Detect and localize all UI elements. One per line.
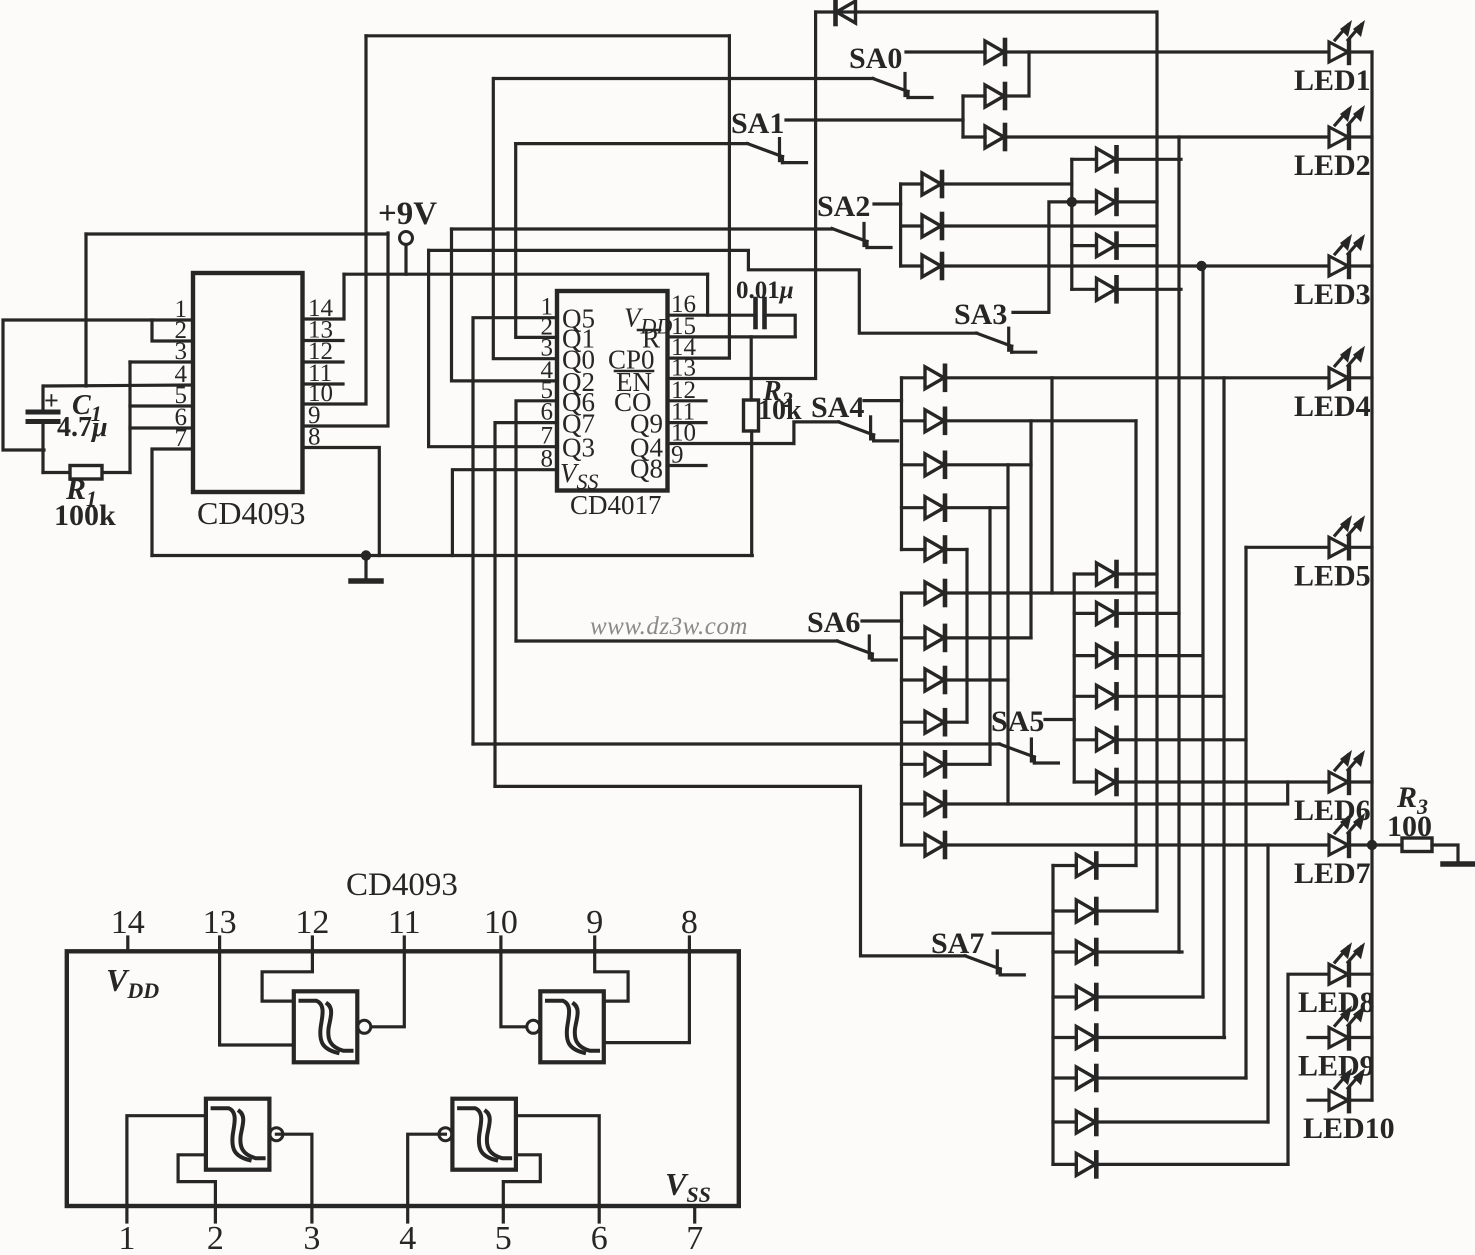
wire LED5 cathode link	[1351, 546, 1372, 549]
switch SA0 blade	[873, 74, 932, 98]
wire U1A in2 (pin13)	[220, 951, 294, 1045]
wire SA7 row1 out	[1096, 864, 1136, 867]
wire U1 pin7 to ground rail	[152, 449, 193, 556]
capacitor C1	[28, 386, 58, 473]
pin 14 U1	[308, 295, 334, 322]
wire matrix vertical A	[1155, 12, 1158, 911]
svg-text:2: 2	[207, 1220, 224, 1250]
value 0.01u	[736, 277, 794, 304]
wire SA3 wire	[1013, 202, 1072, 313]
wire D3 out to LED1 line	[1005, 52, 1029, 96]
value C1 4.7u	[57, 412, 108, 443]
gate U1B	[527, 991, 604, 1062]
switch SA3 blade	[977, 328, 1036, 352]
wire SA6 row4 out	[945, 721, 967, 724]
wire SA3 row4 input	[1072, 288, 1096, 291]
wire ground rail	[152, 554, 752, 557]
wire U1 pin5 stub	[130, 404, 193, 407]
label LED1	[1294, 64, 1371, 97]
wire LED2 cathode link	[1351, 135, 1372, 138]
pin 6 U2	[541, 399, 554, 426]
pin 11 block	[388, 904, 421, 941]
svg-text:4.7μ: 4.7μ	[57, 412, 108, 443]
wire SA4 row4 out	[945, 506, 1008, 509]
IC U1 functional diagram body	[67, 951, 739, 1206]
wire SA2 wire	[874, 202, 901, 205]
diode SA6-5	[925, 752, 945, 776]
diode SA4-4	[925, 496, 945, 520]
wire U2 pin12 stub	[668, 399, 707, 402]
wire SA3 row2 input	[1072, 200, 1096, 203]
label LED7	[1294, 857, 1371, 890]
ground junction	[361, 550, 371, 560]
wire pin 2 block stub	[214, 1206, 217, 1222]
switch SA6 blade	[837, 636, 896, 660]
pin 3 U2	[541, 335, 554, 362]
svg-text:SA5: SA5	[991, 705, 1044, 738]
wire SA4 diode bus	[900, 378, 903, 550]
wire LED cathode bus	[1370, 52, 1373, 1100]
wire pin 7 block stub	[693, 1206, 696, 1222]
wire SA6 wire	[862, 619, 902, 622]
diode SA2-2	[922, 214, 942, 238]
wire VDD rail drop	[706, 274, 709, 315]
wire U2 pin10 Q4 wire	[668, 442, 794, 445]
pin 14 U2	[671, 334, 697, 361]
diode SA5-2	[1097, 601, 1117, 625]
label LED8	[1298, 986, 1375, 1019]
value R1 100k	[54, 499, 116, 532]
wire SA6 row6 out to LED6	[945, 782, 1288, 804]
diode SA5-6	[1097, 770, 1117, 794]
watermark	[590, 613, 748, 640]
IC U2 CD4017 body	[557, 291, 668, 491]
svg-text:SA1: SA1	[731, 107, 784, 140]
diode SA4-2	[925, 409, 945, 433]
wire Q4 to SA4 feed	[794, 422, 839, 444]
pin 1 U1	[175, 296, 188, 323]
pin 13 U1	[308, 317, 333, 344]
resistor R1	[70, 466, 102, 480]
diode SA7-1	[1076, 854, 1096, 878]
wire LED10 wire	[1308, 1099, 1328, 1102]
wire SA6 row3 input	[902, 678, 925, 681]
wire U2 pin14 CP0 to clock bus	[668, 36, 730, 358]
U2 label CO	[614, 387, 652, 417]
wire matrix vertical E	[1244, 547, 1247, 1078]
label CD4093 (block)	[346, 867, 458, 903]
wire SA7 row7 out	[1096, 1120, 1268, 1123]
wire R2 top lead	[750, 337, 753, 400]
wire SA7 row5 out	[1096, 1036, 1224, 1039]
wire U1D in2 (pin5)	[503, 1155, 540, 1206]
label LED5	[1294, 559, 1371, 592]
wire U1 pin3 to R1 right node	[130, 360, 193, 363]
wire Q3 to SA3 feed	[429, 250, 557, 446]
wire diode top wire	[816, 10, 1156, 13]
svg-text:100k: 100k	[54, 499, 116, 532]
ground symbol	[351, 556, 381, 582]
wire pin 10 block stub	[499, 937, 502, 951]
wire SA2 row2 input	[901, 224, 922, 227]
diode SA4-3	[925, 453, 945, 477]
svg-text:5: 5	[495, 1220, 512, 1250]
label LED9	[1298, 1050, 1375, 1083]
wire SA0 feed wire	[495, 77, 874, 80]
wire U1 pin11 stub	[303, 382, 344, 385]
LED4	[1329, 346, 1365, 389]
wire SA4 row2 input	[902, 419, 925, 422]
switch SA5 blade	[999, 739, 1058, 763]
pin 1 block	[118, 1220, 135, 1255]
diode SA6-1	[925, 581, 945, 605]
svg-text:+9V: +9V	[378, 196, 437, 232]
wire SA7 row4 input	[1053, 995, 1076, 998]
U2 label Q3	[562, 433, 595, 463]
wire pin 11 block stub	[403, 937, 406, 951]
wire SA7 row2 out	[1096, 909, 1157, 912]
wire LED5 wire	[1246, 546, 1328, 549]
wire LED8 cathode link	[1351, 973, 1372, 976]
wire C1 bottom wire	[43, 471, 130, 474]
diode SA2-3	[922, 254, 942, 278]
wire R2 bottom lead to ground	[750, 431, 753, 556]
U2 label Q8	[630, 454, 663, 484]
diode SA7-8	[1076, 1152, 1096, 1176]
wire SA5 row5 out	[1117, 738, 1247, 741]
wire SA2 row2 out	[942, 224, 1157, 227]
svg-text:1: 1	[118, 1220, 135, 1250]
pin 6 block	[591, 1220, 608, 1255]
pin 8 U1	[308, 424, 321, 451]
svg-text:0.01μ: 0.01μ	[736, 277, 794, 304]
wire clock top wire	[366, 34, 729, 37]
pin 7 block	[686, 1220, 703, 1255]
wire U1C in1 (pin1)	[127, 1116, 206, 1206]
wire SA5 row3 input	[1074, 654, 1096, 657]
wire U2 pin15 R wire	[668, 335, 796, 338]
label SA0	[849, 42, 902, 75]
wire U1 pin8 to ground	[303, 448, 380, 556]
diode SA7-5	[1076, 1026, 1096, 1050]
wire R3 right lead	[1432, 845, 1458, 862]
pin 4 block	[399, 1220, 416, 1255]
wire SA3 row1 input	[1072, 158, 1096, 161]
svg-text:3: 3	[303, 1220, 320, 1250]
wire pin 14 block stub	[126, 937, 129, 951]
wire pin 6 block stub	[598, 1206, 601, 1222]
wire LED6 wire	[1117, 780, 1329, 783]
pin 14 block	[111, 904, 145, 941]
LED10	[1329, 1068, 1365, 1111]
U2 label CP0	[608, 345, 655, 375]
svg-text:LED3: LED3	[1294, 278, 1371, 311]
wire U1D out (pin4)	[408, 1134, 446, 1206]
wire SA6 feed wire	[516, 639, 837, 642]
wire SA4 wire	[864, 399, 902, 402]
wire SA3 diode bus	[1070, 159, 1073, 289]
pin 10 U2	[671, 420, 696, 447]
U2 label Q9	[630, 409, 663, 439]
wire SA4 row3 input	[902, 463, 925, 466]
gate U1A	[294, 991, 371, 1062]
wire pin 1 block stub	[125, 1206, 128, 1222]
wire SA5 wire	[1045, 718, 1074, 721]
wire SA6 row2 out	[945, 636, 1031, 639]
label LED3	[1294, 278, 1371, 311]
wire SA7 diode bus	[1051, 866, 1054, 1165]
diode SA7-7	[1076, 1110, 1096, 1134]
U2 label Q5	[562, 304, 595, 334]
wire SA7 row1 input	[1053, 864, 1076, 867]
gate U1D	[439, 1099, 516, 1170]
wire LED4 cathode link	[1351, 376, 1372, 379]
node SA3 bus junction	[1067, 197, 1077, 207]
diode SA5-4	[1097, 684, 1117, 708]
value R3 100	[1387, 810, 1432, 843]
wire SA0 wire	[906, 50, 985, 53]
LED8	[1329, 942, 1365, 985]
pin 15 U2	[671, 313, 696, 340]
wire SA3 feed wire	[429, 250, 977, 333]
svg-text:4: 4	[399, 1220, 416, 1250]
wire pin 12 block stub	[311, 937, 314, 951]
label VSS (block)	[665, 1166, 711, 1207]
wire SA7 row3 out	[1096, 950, 1182, 953]
wire LED9 wire	[1308, 1036, 1328, 1039]
LED6	[1329, 750, 1365, 793]
diode SA6-6	[925, 792, 945, 816]
wire SA7 row6 out	[1096, 1076, 1246, 1079]
diode SA4-5	[925, 538, 945, 562]
wire U1B in1 (pin9)	[595, 951, 628, 1001]
wire SA1 wire	[786, 118, 963, 121]
pin 12 U2	[671, 377, 696, 404]
wire SA3 row1 out	[1117, 158, 1182, 161]
wire SA7 row4 out	[1096, 995, 1203, 998]
diode SA7-3	[1076, 940, 1096, 964]
pin 2 block	[207, 1220, 224, 1255]
wire SA7 row7 input	[1053, 1120, 1076, 1123]
U2 label EN bar	[616, 367, 652, 397]
wire pin 3 block stub	[310, 1206, 313, 1222]
wire matrix vertical G / LED8 wire	[1288, 974, 1328, 1164]
pin 9 U2	[671, 442, 684, 469]
wire U1 pin4 to C1 top	[44, 385, 193, 386]
pin 9 U1	[308, 402, 321, 429]
wire SA7 row5 input	[1053, 1036, 1076, 1039]
wire SA5 row3 out	[1117, 654, 1202, 657]
wire pin 4 block stub	[406, 1206, 409, 1222]
pin 16 U2	[671, 291, 696, 318]
diode SA3-3	[1097, 234, 1117, 258]
label SA4	[811, 391, 864, 424]
wire pin 8 block stub	[688, 937, 691, 951]
wire SA2 row1 out	[942, 182, 1072, 185]
diode SA6-7	[925, 833, 945, 857]
wire feedback vertical x86	[84, 234, 87, 386]
wire Q6 to SA6 feed	[516, 401, 557, 641]
wire SA4 row1 input	[902, 376, 925, 379]
wire matrix vertical B	[1177, 137, 1180, 952]
C1 plus sign	[44, 386, 59, 415]
U2 label Q6	[562, 387, 595, 417]
IC U1 CD4093 body	[193, 273, 303, 492]
diode D2 (SA0)	[985, 40, 1005, 64]
pin 12 U1	[308, 338, 333, 365]
LED3	[1329, 234, 1365, 277]
wire node R1 right vertical	[128, 362, 131, 473]
diode SA7-6	[1076, 1066, 1096, 1090]
wire matrix vertical I	[1050, 378, 1053, 593]
svg-text:+: +	[44, 386, 59, 415]
pin 12 block	[295, 904, 329, 941]
wire matrix vertical M	[965, 550, 968, 723]
pin 3 U1	[175, 338, 188, 365]
LED9	[1329, 1006, 1365, 1049]
diode SA2-1	[922, 172, 942, 196]
wire U1 pin9 feedback	[303, 233, 389, 426]
wire SA2 row1 input	[901, 182, 922, 185]
wire Q0 to SA0 feed	[493, 79, 557, 359]
LED2	[1329, 105, 1365, 148]
wire LED9 cathode link	[1351, 1036, 1372, 1039]
svg-text:SA2: SA2	[817, 190, 870, 223]
switch SA4 blade	[839, 417, 898, 441]
wire SA5 row1 out	[1117, 572, 1158, 575]
U2 label Q4	[630, 433, 663, 463]
U2 label Q0	[562, 345, 595, 375]
wire SA5 row4 input	[1074, 695, 1096, 698]
wire +9V rail	[344, 273, 708, 276]
diode SA7-4	[1076, 985, 1096, 1009]
U2 label Q7	[562, 409, 595, 439]
svg-text:CD4017: CD4017	[570, 490, 662, 520]
wire R3 left lead	[1372, 843, 1402, 846]
wire SA4 row3 out	[945, 463, 1031, 466]
svg-text:SA3: SA3	[954, 298, 1007, 331]
pin 5 block	[495, 1220, 512, 1255]
pin 8 block	[681, 904, 698, 941]
label C1	[72, 390, 102, 426]
wire SA3 row3 out	[1117, 244, 1158, 247]
label VDD (block)	[106, 962, 159, 1003]
wire SA4 row5 out	[945, 548, 967, 551]
svg-text:7: 7	[686, 1220, 703, 1250]
svg-text:LED2: LED2	[1294, 149, 1371, 182]
label U1 CD4093	[197, 495, 305, 531]
wire pin 9 block stub	[593, 937, 596, 951]
pin 2 U2	[541, 313, 554, 340]
diode SA7-2	[1076, 899, 1096, 923]
wire U1D in1 (pin6)	[516, 1116, 599, 1206]
diode SA3-1	[1097, 147, 1117, 171]
label R3	[1396, 781, 1428, 819]
wire LED7 cathode link	[1351, 843, 1372, 846]
pin 3 block	[303, 1220, 320, 1255]
label LED2	[1294, 149, 1371, 182]
wire U1 pin6 stub	[130, 426, 193, 429]
switch SA7 blade	[965, 951, 1024, 975]
wire U1 pin14 to +9V rail	[303, 274, 345, 319]
gate U1C	[206, 1099, 283, 1170]
wire SA6 row5 input	[902, 763, 925, 766]
U2 label VSS	[560, 458, 599, 494]
wire SA5 feed wire	[473, 742, 999, 745]
wire SA5 row5 input	[1074, 738, 1096, 741]
wire SA7 row6 input	[1053, 1076, 1076, 1079]
wire SA5 row6 input	[1074, 780, 1096, 783]
wire U2 pin13 EN wire	[668, 12, 816, 379]
capacitor 0.01u	[756, 299, 765, 327]
wire SA5 row2 input	[1074, 612, 1096, 615]
svg-text:www.dz3w.com: www.dz3w.com	[590, 613, 748, 640]
wire pin 13 block stub	[218, 937, 221, 951]
U2 label Q1	[562, 323, 595, 353]
wire SA7 row8 input	[1053, 1163, 1076, 1166]
wire SA6 row4 input	[902, 721, 925, 724]
wire SA6 diode bus	[900, 593, 903, 845]
svg-text:LED1: LED1	[1294, 64, 1371, 97]
wire LED10 cathode link	[1351, 1099, 1372, 1102]
wire LED4 wire	[945, 376, 1328, 379]
wire matrix vertical K	[1006, 465, 1009, 804]
resistor R2	[744, 400, 759, 431]
pin 13 block	[203, 904, 237, 941]
wire SA7 row2 input	[1053, 909, 1076, 912]
wire matrix vertical D	[1222, 378, 1225, 1038]
U2 label VDD	[624, 303, 672, 339]
wire SA5 row4 out	[1117, 695, 1225, 698]
switch SA1 blade	[748, 139, 807, 163]
wire pin 5 block stub	[502, 1206, 505, 1222]
wire U1 pin10 to top bus	[303, 36, 367, 404]
wire SA2 row3 input	[901, 264, 922, 267]
wire SA6 row7 input	[902, 843, 925, 846]
label SA7	[931, 927, 984, 960]
pin 10 U1	[308, 380, 333, 407]
wire U1A out (pin11)	[371, 951, 404, 1027]
wire D4 input	[963, 135, 985, 138]
wire Q5 to SA5 feed	[473, 318, 557, 744]
pin 4 U2	[541, 357, 554, 384]
svg-text:100: 100	[1387, 810, 1432, 843]
label LED6	[1294, 794, 1371, 827]
diode D3 (SA1 a)	[985, 84, 1005, 108]
pin 11 U2	[671, 399, 695, 426]
label +9V	[378, 196, 437, 232]
wire SA7 row8 out	[1096, 1163, 1288, 1166]
wire SA3 row3 input	[1072, 244, 1096, 247]
node LED3 junction	[1196, 261, 1206, 271]
pin 8 U2	[541, 446, 554, 473]
wire SA6 row1 input	[902, 591, 925, 594]
wire U1 pin1 to C1 bottom node	[3, 320, 193, 450]
value R2 10k	[758, 395, 802, 426]
wire matrix vertical H	[1134, 421, 1137, 866]
label LED10	[1303, 1112, 1395, 1145]
svg-text:6: 6	[591, 1220, 608, 1250]
U2 label R bar	[642, 323, 660, 353]
LED7	[1329, 813, 1365, 856]
svg-text:LED9: LED9	[1298, 1050, 1375, 1083]
wire SA5 diode bus	[1073, 574, 1076, 782]
svg-text:SA4: SA4	[811, 391, 864, 424]
wire matrix vertical C	[1201, 266, 1204, 997]
wire SA7 feed wire	[495, 786, 965, 956]
wire SA2 feed wire	[452, 227, 833, 230]
svg-text:LED7: LED7	[1294, 857, 1371, 890]
